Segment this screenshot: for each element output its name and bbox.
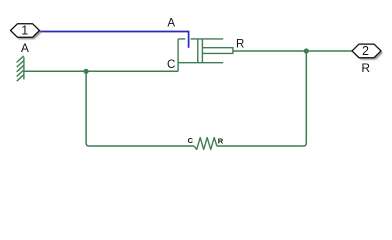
svg-text:C: C xyxy=(188,136,194,145)
ground: mechanical translational reference wall xyxy=(17,56,24,81)
port 2 hexagon xyxy=(352,44,381,58)
port 1 hexagon shadow xyxy=(12,26,41,40)
wire: rod R to port 2 xyxy=(233,50,352,52)
port 1 hexagon xyxy=(11,24,40,38)
svg-text:R: R xyxy=(218,136,224,145)
node: junction on C wire xyxy=(84,69,89,74)
spring (translational spring) xyxy=(194,138,217,150)
port 2 hexagon shadow xyxy=(354,46,383,60)
wire: loop from junction down, across bottom to spring xyxy=(86,71,194,146)
svg-text:R: R xyxy=(361,61,370,75)
svg-text:C: C xyxy=(167,59,175,71)
wire: from spring to right riser up to junction xyxy=(217,51,306,146)
cylinder U1 (single-acting hydraulic cylinder) xyxy=(178,39,233,71)
svg-text:A: A xyxy=(21,41,29,55)
piston rod xyxy=(202,48,233,54)
wire: green from reference wall to cylinder port C xyxy=(24,70,178,72)
cylinder case top edge (gap for inlet) xyxy=(178,38,223,40)
svg-text:A: A xyxy=(167,17,175,29)
cylinder case left wall + C stub xyxy=(177,39,179,71)
wire: blue hydraulic line from port 1 to cylinder port A xyxy=(40,32,189,48)
svg-text:1: 1 xyxy=(21,23,28,37)
svg-text:2: 2 xyxy=(362,44,369,58)
piston xyxy=(198,39,203,63)
cylinder case bottom edge xyxy=(178,62,223,64)
svg-text:R: R xyxy=(236,39,244,51)
node: junction on R wire xyxy=(304,48,309,53)
